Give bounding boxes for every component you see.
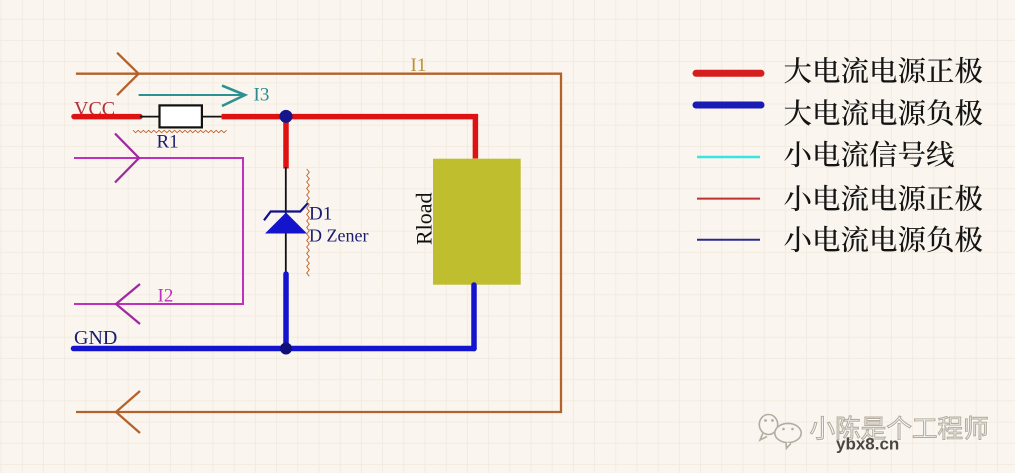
svg-text:ybx8.cn: ybx8.cn [836, 435, 899, 454]
svg-text:I1: I1 [411, 55, 427, 76]
svg-text:D1: D1 [309, 204, 332, 225]
svg-text:Rload: Rload [412, 192, 437, 245]
svg-text:I2: I2 [158, 286, 174, 307]
svg-text:R1: R1 [157, 132, 179, 153]
svg-text:I3: I3 [254, 85, 270, 106]
svg-text:D Zener: D Zener [309, 226, 368, 246]
svg-text:GND: GND [74, 327, 117, 349]
